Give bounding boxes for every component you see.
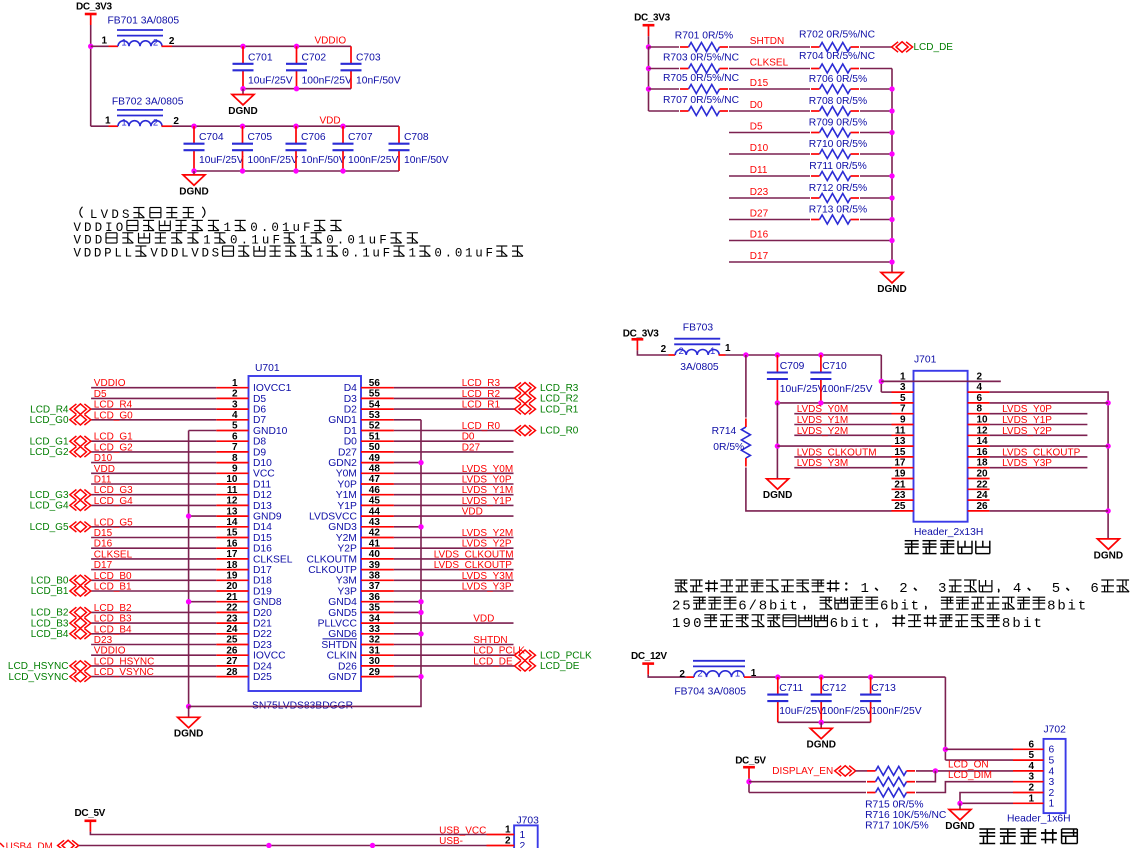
svg-text:10: 10 xyxy=(977,415,989,426)
svg-text:LVDSVCC: LVDSVCC xyxy=(309,512,357,523)
svg-text:D0: D0 xyxy=(344,437,357,448)
svg-text:18: 18 xyxy=(226,560,238,571)
svg-text:FB702 3A/0805: FB702 3A/0805 xyxy=(112,97,184,108)
svg-text:LCD_G0: LCD_G0 xyxy=(94,410,133,421)
svg-text:34: 34 xyxy=(369,613,381,624)
svg-text:LCD_B1: LCD_B1 xyxy=(94,582,132,593)
svg-text:6: 6 xyxy=(1028,739,1034,750)
svg-text:LVDS_CLKOUTM: LVDS_CLKOUTM xyxy=(797,447,877,458)
svg-text:54: 54 xyxy=(369,399,381,410)
svg-text:LCD_HSYNC: LCD_HSYNC xyxy=(94,656,155,667)
svg-text:17: 17 xyxy=(894,458,906,469)
svg-text:D20: D20 xyxy=(253,608,272,619)
svg-text:D11: D11 xyxy=(253,479,271,490)
svg-text:SHTDN: SHTDN xyxy=(473,635,507,646)
svg-text:D5: D5 xyxy=(94,389,107,400)
svg-text:Y3P: Y3P xyxy=(337,586,357,597)
svg-text:R709 0R/5%: R709 0R/5% xyxy=(809,117,867,128)
svg-text:FB704 3A/0805: FB704 3A/0805 xyxy=(674,687,746,698)
svg-text:9: 9 xyxy=(900,415,906,426)
svg-text:LCD_B4: LCD_B4 xyxy=(31,629,69,640)
svg-text:DGND: DGND xyxy=(945,821,974,832)
svg-text:C705: C705 xyxy=(248,132,273,143)
svg-text:10nF/50V: 10nF/50V xyxy=(301,155,346,166)
svg-text:10uF/25V: 10uF/25V xyxy=(780,384,825,395)
svg-text:4: 4 xyxy=(977,382,983,393)
svg-text:23: 23 xyxy=(894,490,906,501)
svg-text:DC_3V3: DC_3V3 xyxy=(76,2,112,13)
svg-text:10uF/25V: 10uF/25V xyxy=(248,75,293,86)
svg-text:LCD_DE: LCD_DE xyxy=(914,42,954,53)
svg-text:D10: D10 xyxy=(253,458,272,469)
svg-text:USB_VCC: USB_VCC xyxy=(439,825,486,836)
svg-text:1: 1 xyxy=(1049,799,1055,810)
svg-text:31: 31 xyxy=(369,645,381,656)
svg-text:22: 22 xyxy=(977,479,989,490)
svg-text:GND8: GND8 xyxy=(253,597,282,608)
svg-text:1: 1 xyxy=(725,343,731,354)
svg-text:R710 0R/5%: R710 0R/5% xyxy=(809,139,867,150)
svg-text:LCD_R3: LCD_R3 xyxy=(462,378,501,389)
svg-text:LVDS_CLKOUTP: LVDS_CLKOUTP xyxy=(1002,447,1081,458)
svg-text:0.01uF: 0.01uF xyxy=(434,247,495,261)
svg-text:19: 19 xyxy=(894,469,906,480)
svg-text:CLKSEL: CLKSEL xyxy=(253,554,293,565)
svg-text:1: 1 xyxy=(861,581,871,597)
svg-text:LVDS: LVDS xyxy=(90,208,133,222)
svg-text:53: 53 xyxy=(369,410,381,421)
svg-text:D19: D19 xyxy=(253,586,272,597)
svg-text:D27: D27 xyxy=(462,442,481,453)
svg-text:D8: D8 xyxy=(253,437,266,448)
svg-text:49: 49 xyxy=(369,453,381,464)
svg-text:R712 0R/5%: R712 0R/5% xyxy=(809,183,867,194)
svg-text:2: 2 xyxy=(520,841,526,848)
svg-text:VDD: VDD xyxy=(94,464,115,475)
svg-text:2: 2 xyxy=(232,389,238,400)
svg-text:R708 0R/5%: R708 0R/5% xyxy=(809,96,867,107)
svg-text:36: 36 xyxy=(369,592,381,603)
svg-text:LCD_R2: LCD_R2 xyxy=(462,389,501,400)
svg-text:47: 47 xyxy=(369,474,381,485)
svg-text:1: 1 xyxy=(316,247,326,261)
svg-text:D27: D27 xyxy=(338,447,357,458)
svg-text:Y1P: Y1P xyxy=(337,501,357,512)
svg-text:1: 1 xyxy=(409,247,419,261)
svg-text:VDDIO: VDDIO xyxy=(94,378,126,389)
svg-text:D17: D17 xyxy=(750,251,769,262)
svg-text:LCD_B2: LCD_B2 xyxy=(94,603,132,614)
svg-text:LVDS_Y3M: LVDS_Y3M xyxy=(462,571,514,582)
svg-text:D13: D13 xyxy=(253,501,272,512)
svg-text:LCD_B2: LCD_B2 xyxy=(31,608,69,619)
svg-text:LCD_R4: LCD_R4 xyxy=(30,404,69,415)
svg-text:100nF/25V: 100nF/25V xyxy=(871,706,922,717)
svg-text:D9: D9 xyxy=(253,447,266,458)
svg-text:D26: D26 xyxy=(338,661,357,672)
svg-text:LCD_B0: LCD_B0 xyxy=(31,576,69,587)
svg-text:39: 39 xyxy=(369,560,381,571)
svg-text:42: 42 xyxy=(369,528,381,539)
svg-text:1: 1 xyxy=(735,668,740,679)
svg-text:IOVCC: IOVCC xyxy=(253,651,286,662)
svg-text:C704: C704 xyxy=(199,132,224,143)
svg-text:6: 6 xyxy=(1090,581,1100,597)
svg-text:LCD_G3: LCD_G3 xyxy=(30,490,69,501)
svg-text:LCD_G3: LCD_G3 xyxy=(94,485,133,496)
svg-text:R714: R714 xyxy=(712,426,737,437)
svg-text:LVDS_Y2P: LVDS_Y2P xyxy=(462,539,512,550)
svg-text:1: 1 xyxy=(203,233,214,247)
svg-text:1: 1 xyxy=(710,346,715,357)
svg-text:1: 1 xyxy=(299,233,310,247)
svg-text:32: 32 xyxy=(369,635,381,646)
svg-text:26: 26 xyxy=(226,645,238,656)
svg-text:D10: D10 xyxy=(750,143,769,154)
svg-text:4: 4 xyxy=(232,410,238,421)
svg-text:55: 55 xyxy=(369,389,381,400)
svg-text:DC_5V: DC_5V xyxy=(735,755,766,766)
svg-text:D15: D15 xyxy=(750,78,769,89)
svg-text:14: 14 xyxy=(226,517,238,528)
svg-text:C711: C711 xyxy=(779,683,803,694)
svg-text:1: 1 xyxy=(1028,793,1034,804)
svg-text:8bit: 8bit xyxy=(1047,598,1088,614)
svg-text:D27: D27 xyxy=(750,209,769,220)
svg-text:15: 15 xyxy=(226,528,238,539)
svg-text:R701 0R/5%: R701 0R/5% xyxy=(675,31,733,42)
svg-text:6: 6 xyxy=(977,393,983,404)
svg-text:2: 2 xyxy=(1049,788,1055,799)
svg-text:LCD_G0: LCD_G0 xyxy=(30,415,69,426)
svg-text:R703 0R/5%/NC: R703 0R/5%/NC xyxy=(663,53,740,64)
svg-text:100nF/25V: 100nF/25V xyxy=(822,706,873,717)
svg-text:R707 0R/5%/NC: R707 0R/5%/NC xyxy=(663,95,740,106)
svg-text:D14: D14 xyxy=(253,522,272,533)
svg-text:D22: D22 xyxy=(253,629,272,640)
svg-text:1: 1 xyxy=(101,36,107,47)
svg-text:LCD_ON: LCD_ON xyxy=(948,759,989,770)
svg-text:51: 51 xyxy=(369,431,381,442)
svg-text:26: 26 xyxy=(977,501,989,512)
svg-text:6bit: 6bit xyxy=(880,598,921,614)
svg-text:Y0P: Y0P xyxy=(337,479,357,490)
svg-text:LVDS_Y3M: LVDS_Y3M xyxy=(797,458,849,469)
svg-text:D15: D15 xyxy=(94,528,113,539)
svg-text:41: 41 xyxy=(369,538,381,549)
svg-text:LVDS_Y1M: LVDS_Y1M xyxy=(462,485,514,496)
svg-text:1: 1 xyxy=(121,117,126,128)
svg-text:38: 38 xyxy=(369,571,381,582)
svg-text:LCD_B0: LCD_B0 xyxy=(94,571,132,582)
svg-text:2: 2 xyxy=(661,344,667,355)
svg-text:D16: D16 xyxy=(750,230,769,241)
svg-text:Header_1x6H: Header_1x6H xyxy=(1007,814,1071,825)
svg-text:24: 24 xyxy=(977,490,989,501)
svg-text:D5: D5 xyxy=(253,394,266,405)
svg-text:Y2M: Y2M xyxy=(336,533,357,544)
svg-text:2: 2 xyxy=(679,346,684,357)
svg-text:C708: C708 xyxy=(404,132,429,143)
svg-text:R705 0R/5%/NC: R705 0R/5%/NC xyxy=(663,73,740,84)
svg-text:CLKSEL: CLKSEL xyxy=(94,549,133,560)
svg-text:CLKOUTM: CLKOUTM xyxy=(307,554,357,565)
svg-text:12: 12 xyxy=(977,425,989,436)
svg-text:R702 0R/5%/NC: R702 0R/5%/NC xyxy=(799,30,876,41)
svg-text:D6: D6 xyxy=(253,405,266,416)
svg-text:10uF/25V: 10uF/25V xyxy=(779,706,824,717)
svg-text:GND4: GND4 xyxy=(328,597,357,608)
svg-text:DC_5V: DC_5V xyxy=(75,808,106,819)
svg-text:6bit: 6bit xyxy=(830,616,872,632)
svg-text:LVDS_Y3P: LVDS_Y3P xyxy=(1002,458,1052,469)
svg-text:VDDIO: VDDIO xyxy=(315,35,347,46)
svg-text:LVDS_CLKOUTM: LVDS_CLKOUTM xyxy=(434,549,514,560)
svg-text:8: 8 xyxy=(977,404,983,415)
svg-text:25: 25 xyxy=(672,598,692,614)
svg-text:D11: D11 xyxy=(94,475,112,486)
svg-text:Y0M: Y0M xyxy=(336,469,357,480)
svg-text:C701: C701 xyxy=(248,52,273,63)
svg-text:DGND: DGND xyxy=(806,740,835,751)
svg-text:C703: C703 xyxy=(356,52,381,63)
svg-text:23: 23 xyxy=(226,613,238,624)
svg-text:LCD_G5: LCD_G5 xyxy=(94,517,133,528)
svg-text:9: 9 xyxy=(232,464,238,475)
svg-text:CLKIN: CLKIN xyxy=(327,651,357,662)
svg-text:6: 6 xyxy=(1049,745,1055,756)
svg-text:2: 2 xyxy=(1028,783,1034,794)
svg-text:LCD_PCLK: LCD_PCLK xyxy=(540,650,592,661)
svg-text:0R/5%: 0R/5% xyxy=(713,442,744,453)
svg-text:100nF/25V: 100nF/25V xyxy=(822,384,873,395)
svg-text:GND9: GND9 xyxy=(253,512,282,523)
svg-text:D11: D11 xyxy=(750,165,768,176)
svg-text:D3: D3 xyxy=(344,394,357,405)
svg-text:LVDS_Y3P: LVDS_Y3P xyxy=(462,582,512,593)
svg-text:C707: C707 xyxy=(348,132,373,143)
svg-text:C713: C713 xyxy=(871,683,896,694)
svg-text:43: 43 xyxy=(369,517,381,528)
svg-text:DC_3V3: DC_3V3 xyxy=(634,13,670,24)
svg-text:2: 2 xyxy=(153,117,158,128)
svg-text:6/8bit: 6/8bit xyxy=(738,598,799,614)
svg-text:100nF/25V: 100nF/25V xyxy=(248,155,299,166)
svg-text:PLLVCC: PLLVCC xyxy=(318,619,358,630)
svg-text:LCD_DE: LCD_DE xyxy=(473,656,513,667)
svg-text:GND1: GND1 xyxy=(328,415,357,426)
svg-text:LVDS_Y2M: LVDS_Y2M xyxy=(462,528,514,539)
svg-text:20: 20 xyxy=(977,469,989,480)
svg-text:LVDS_Y0P: LVDS_Y0P xyxy=(1002,404,1052,415)
svg-text:5: 5 xyxy=(900,393,906,404)
svg-text:LCD_R2: LCD_R2 xyxy=(540,394,579,405)
svg-text:20: 20 xyxy=(226,581,238,592)
svg-text:18: 18 xyxy=(977,458,989,469)
svg-text:D16: D16 xyxy=(253,544,272,555)
svg-text:2: 2 xyxy=(977,371,983,382)
svg-text:CLKSEL: CLKSEL xyxy=(750,58,789,69)
svg-text:LCD_R0: LCD_R0 xyxy=(540,426,579,437)
svg-text:46: 46 xyxy=(369,485,381,496)
svg-text:D21: D21 xyxy=(253,619,272,630)
svg-text:SHTDN: SHTDN xyxy=(321,640,356,651)
svg-text:D2: D2 xyxy=(344,405,357,416)
svg-text:LCD_G2: LCD_G2 xyxy=(30,447,69,458)
svg-text:GND3: GND3 xyxy=(328,522,357,533)
svg-text:50: 50 xyxy=(369,442,381,453)
svg-text:4: 4 xyxy=(1013,581,1023,597)
svg-text:D17: D17 xyxy=(253,565,272,576)
svg-text:15: 15 xyxy=(894,447,906,458)
svg-text:LCD_B3: LCD_B3 xyxy=(31,618,69,629)
svg-text:VDDLVDS: VDDLVDS xyxy=(150,247,221,261)
svg-text:LCD_G1: LCD_G1 xyxy=(94,432,133,443)
svg-text:10nF/50V: 10nF/50V xyxy=(356,75,401,86)
svg-text:D23: D23 xyxy=(750,187,769,198)
svg-text:DGND: DGND xyxy=(174,729,203,740)
svg-text:17: 17 xyxy=(226,549,238,560)
svg-text:2: 2 xyxy=(679,669,685,680)
svg-text:D7: D7 xyxy=(253,415,266,426)
svg-text:1: 1 xyxy=(505,825,511,836)
svg-text:2: 2 xyxy=(169,36,175,47)
svg-text:C709: C709 xyxy=(780,361,805,372)
svg-text:19: 19 xyxy=(226,571,238,582)
svg-text:D4: D4 xyxy=(344,383,357,394)
svg-text:GDN2: GDN2 xyxy=(328,458,357,469)
svg-text:DC_12V: DC_12V xyxy=(631,651,667,662)
svg-text:25: 25 xyxy=(226,635,238,646)
svg-text:1: 1 xyxy=(121,38,126,49)
svg-text:LVDS_CLKOUTP: LVDS_CLKOUTP xyxy=(434,560,513,571)
svg-text:LCD_DIM: LCD_DIM xyxy=(948,770,992,781)
svg-text:LCD_G4: LCD_G4 xyxy=(94,496,133,507)
svg-text:5: 5 xyxy=(1028,750,1034,761)
svg-text:D5: D5 xyxy=(750,122,763,133)
svg-text:LCD_B1: LCD_B1 xyxy=(31,586,69,597)
svg-text:LCD_G2: LCD_G2 xyxy=(94,442,133,453)
svg-text:LVDS_Y2M: LVDS_Y2M xyxy=(797,426,849,437)
svg-text:10nF/50V: 10nF/50V xyxy=(404,155,449,166)
svg-text:R713 0R/5%: R713 0R/5% xyxy=(809,204,867,215)
svg-text:45: 45 xyxy=(369,496,381,507)
svg-text:FB703: FB703 xyxy=(683,322,714,333)
svg-text:VDDIO: VDDIO xyxy=(94,646,126,657)
svg-text:LCD_G1: LCD_G1 xyxy=(30,436,69,447)
svg-text:DGND: DGND xyxy=(877,284,906,295)
svg-text:Y2P: Y2P xyxy=(337,544,357,555)
svg-text:LVDS_Y0P: LVDS_Y0P xyxy=(462,475,512,486)
svg-text:GND5: GND5 xyxy=(328,608,357,619)
svg-text:LCD_R4: LCD_R4 xyxy=(94,400,133,411)
svg-text:2: 2 xyxy=(697,668,702,679)
svg-text:8bit: 8bit xyxy=(1002,616,1044,632)
svg-text:40: 40 xyxy=(369,549,381,560)
svg-text:VDD: VDD xyxy=(473,614,494,625)
svg-text:2: 2 xyxy=(173,116,179,127)
svg-text:4: 4 xyxy=(1028,761,1034,772)
svg-text:10uF/25V: 10uF/25V xyxy=(199,155,244,166)
svg-text:VDD: VDD xyxy=(74,233,106,247)
svg-text:LVDS_Y0M: LVDS_Y0M xyxy=(797,404,849,415)
svg-text:LVDS_Y1P: LVDS_Y1P xyxy=(462,496,512,507)
svg-text:13: 13 xyxy=(226,506,238,517)
svg-text:3: 3 xyxy=(900,382,906,393)
svg-text:1: 1 xyxy=(520,830,526,841)
svg-text:5: 5 xyxy=(1052,581,1062,597)
svg-text:2: 2 xyxy=(505,836,511,847)
svg-text:Y1M: Y1M xyxy=(336,490,357,501)
svg-text:D23: D23 xyxy=(253,640,272,651)
svg-text:1: 1 xyxy=(900,371,906,382)
svg-text:14: 14 xyxy=(977,436,989,447)
svg-text:LCD_G4: LCD_G4 xyxy=(30,501,69,512)
svg-text:J701: J701 xyxy=(914,355,937,366)
svg-text:3: 3 xyxy=(1049,777,1055,788)
svg-text:LVDS_Y2P: LVDS_Y2P xyxy=(1002,426,1052,437)
svg-text:D24: D24 xyxy=(253,661,272,672)
svg-text:U701: U701 xyxy=(255,363,280,374)
svg-text:33: 33 xyxy=(369,624,381,635)
svg-text:C702: C702 xyxy=(302,52,327,63)
svg-text:GND10: GND10 xyxy=(253,426,288,437)
svg-text:VDD: VDD xyxy=(320,115,341,126)
svg-text:22: 22 xyxy=(226,603,238,614)
svg-text:D17: D17 xyxy=(94,560,113,571)
svg-text:J703: J703 xyxy=(517,815,540,826)
svg-text:Y3M: Y3M xyxy=(336,576,357,587)
svg-text:D10: D10 xyxy=(94,453,113,464)
svg-text:5: 5 xyxy=(1049,756,1055,767)
svg-text:D0: D0 xyxy=(750,100,763,111)
svg-text:44: 44 xyxy=(369,506,381,517)
svg-text:2: 2 xyxy=(899,581,909,597)
svg-text:D25: D25 xyxy=(253,672,272,683)
svg-text:16: 16 xyxy=(977,447,989,458)
svg-text:R717 10K/5%: R717 10K/5% xyxy=(865,820,929,831)
svg-text:LCD_R3: LCD_R3 xyxy=(540,383,579,394)
svg-text:7: 7 xyxy=(232,442,238,453)
svg-text:DC_3V3: DC_3V3 xyxy=(623,329,659,340)
svg-text:LCD_PCLK: LCD_PCLK xyxy=(473,646,525,657)
svg-text:LCD_DE: LCD_DE xyxy=(540,661,580,672)
svg-text:GND7: GND7 xyxy=(328,672,357,683)
svg-text:5: 5 xyxy=(232,421,238,432)
svg-text:LCD_B4: LCD_B4 xyxy=(94,624,132,635)
svg-text:30: 30 xyxy=(369,656,381,667)
svg-text:IOVCC1: IOVCC1 xyxy=(253,383,292,394)
svg-text:GND6: GND6 xyxy=(328,629,357,640)
svg-text:LVDS_Y0M: LVDS_Y0M xyxy=(462,464,514,475)
svg-text:16: 16 xyxy=(226,538,238,549)
svg-text:VDDPLL: VDDPLL xyxy=(74,247,135,261)
svg-text:LCD_VSYNC: LCD_VSYNC xyxy=(8,672,68,683)
svg-text:Header_2x13H: Header_2x13H xyxy=(914,527,983,538)
svg-text:100nF/25V: 100nF/25V xyxy=(302,75,353,86)
svg-text:DGND: DGND xyxy=(1094,550,1123,561)
svg-text:3: 3 xyxy=(1028,772,1034,783)
svg-text:2: 2 xyxy=(153,38,158,49)
svg-text:6: 6 xyxy=(232,431,238,442)
svg-text:R711 0R/5%: R711 0R/5% xyxy=(809,161,867,172)
svg-text:LVDS_Y1M: LVDS_Y1M xyxy=(797,415,849,426)
svg-text:11: 11 xyxy=(895,425,906,436)
svg-text:C710: C710 xyxy=(822,361,847,372)
svg-text:35: 35 xyxy=(369,603,381,614)
svg-text:0.01uF: 0.01uF xyxy=(326,233,390,247)
svg-text:25: 25 xyxy=(894,501,906,512)
